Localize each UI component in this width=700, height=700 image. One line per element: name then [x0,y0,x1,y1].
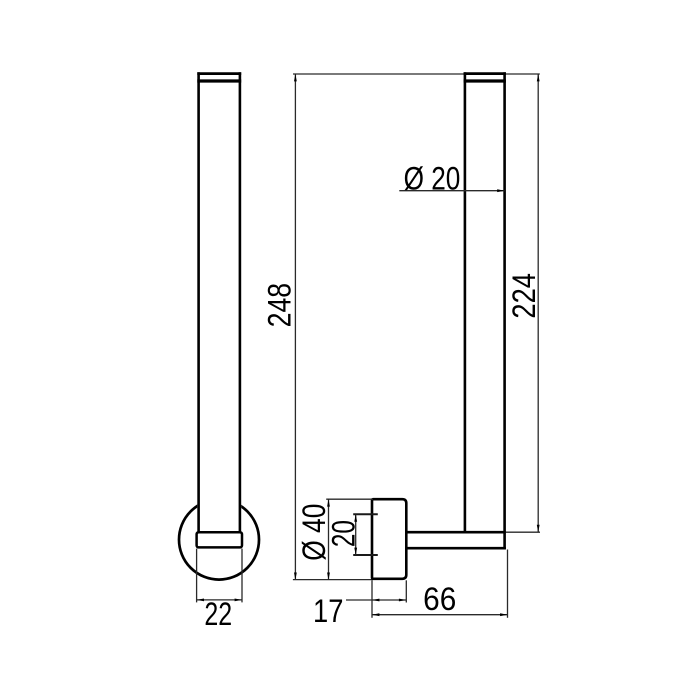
flange-left extension line down (shared by 17 and 66) [371,580,373,618]
dim text 66 [423,581,456,617]
svg-text:22: 22 [204,597,232,633]
svg-text:248: 248 [262,283,298,327]
svg-text:66: 66 [423,581,456,617]
top extension line (shared by 248 and 224) [293,73,540,75]
flange-top extension line (for Ø40) [326,498,373,500]
bottom extension line (flange bottom to 248 line) [293,579,373,581]
rod-end extension line down (for 66) [507,550,509,618]
spare-roll bar (side view, Ø20) [464,72,506,549]
dimension line 20 [354,514,357,555]
dimension line 224 [537,74,540,532]
tick extension lines for dim 20 [353,514,378,555]
spare-roll bar (front view) [197,72,241,533]
dim text 17 [313,594,343,629]
svg-text:224: 224 [507,273,542,319]
svg-text:Ø 20: Ø 20 [404,162,461,197]
dimension line Ø40 [327,499,330,580]
svg-text:20: 20 [326,520,362,547]
dimension line 248 [294,74,297,580]
svg-text:17: 17 [313,594,343,629]
dim text 22 [204,597,232,633]
wall flange (side view, rounded) [372,499,406,579]
dim text Ø 40 [297,504,333,561]
flange-right extension line down (for 17) [405,580,407,602]
dimension line 22 [197,599,242,602]
extension lines for dim 22 [197,549,242,603]
dimension line 17 [346,599,406,602]
dim text 20 [326,520,362,547]
dim text 224 [507,273,542,319]
wall flange circle (front view, Ø40) [179,72,259,580]
dim text 248 [262,283,298,327]
dimension line 66 [372,613,508,616]
mounting collar band (front view, 22 wide) [197,532,242,547]
leader line for Ø20 [399,189,504,192]
support rod (side view) [406,532,506,548]
dim text Ø 20 [404,162,461,197]
rod-top extension line (for 224) [506,531,540,533]
